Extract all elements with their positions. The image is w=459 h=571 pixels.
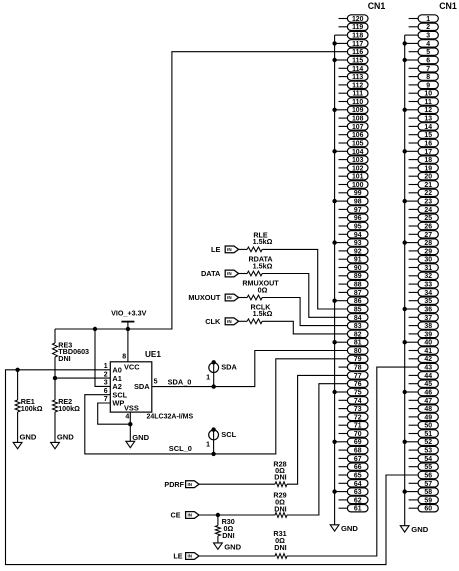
svg-text:100kΩ: 100kΩ [21, 404, 43, 413]
wire LE net to CN1 pin 85 [262, 249, 347, 309]
CN1 pin 59 [409, 496, 439, 504]
svg-text:56: 56 [424, 472, 432, 479]
svg-text:39: 39 [424, 331, 432, 338]
svg-text:86: 86 [354, 298, 362, 305]
CN1 pin 88 [339, 280, 369, 288]
CN1 pin 81 [332, 339, 368, 347]
CN1 pin 112 [339, 81, 369, 89]
svg-text:CLK: CLK [205, 317, 221, 326]
CN1 pin 96 [339, 214, 369, 222]
svg-text:21: 21 [424, 182, 432, 189]
pin number 2 (A1) [104, 371, 108, 378]
CN1 pin 118 [347, 31, 368, 39]
CN1 pin 78 [339, 363, 369, 371]
svg-text:51: 51 [424, 431, 432, 438]
svg-text:SDA: SDA [134, 382, 150, 391]
svg-text:93: 93 [354, 240, 362, 247]
CN1 pin 120 [339, 15, 369, 23]
CN1 pin 25 [409, 214, 439, 222]
port PDRF (input) [164, 480, 199, 489]
CN1 pin 66 [339, 463, 369, 471]
resistor R28 0Ω DNI [199, 459, 287, 486]
node A1 / RE2 / RE3 junction [53, 376, 57, 380]
svg-text:50: 50 [424, 423, 432, 430]
CN1 pin 109 [332, 106, 368, 114]
svg-text:25: 25 [424, 215, 432, 222]
svg-text:32: 32 [424, 273, 432, 280]
svg-text:DNI: DNI [274, 473, 286, 482]
svg-text:24LC32A-I/MS: 24LC32A-I/MS [147, 414, 194, 421]
wire A0 net: UE1 pin 1 to CN1 pin 56 [6, 370, 419, 565]
svg-text:VIO_+3.3V: VIO_+3.3V [111, 309, 147, 318]
CN1 pin 87 [339, 289, 369, 297]
svg-text:67: 67 [354, 456, 362, 463]
power symbol VIO_+3.3V [111, 309, 147, 329]
wire SDA net: UE1 pin 5 to CN1 pin 80 [152, 351, 348, 387]
svg-text:29: 29 [424, 248, 432, 255]
CN1 pin 43 [418, 363, 438, 371]
svg-text:120: 120 [352, 16, 364, 23]
svg-text:64: 64 [354, 481, 362, 488]
wire LE net to CN1 pin 43 [287, 367, 418, 556]
wire WP (UE1 pin 7) to VSS node [98, 403, 131, 424]
CN1 pin 24 [409, 206, 439, 214]
svg-text:IN: IN [188, 513, 193, 518]
svg-text:43: 43 [424, 365, 432, 372]
svg-text:102: 102 [352, 165, 364, 172]
svg-text:SCL_0: SCL_0 [169, 444, 192, 453]
CN1 pin 45 [409, 380, 439, 388]
resistor RE3 TBD0603 DNI pullup on A1 [53, 329, 90, 378]
resistor RLE 1.5kΩ [239, 231, 273, 252]
CN1 pin 19 [409, 164, 439, 172]
CN1 pin 32 [409, 272, 439, 280]
pin number 5 (SDA) [154, 379, 158, 386]
svg-text:MUXOUT: MUXOUT [188, 293, 221, 302]
pin number 4 (VSS) [125, 413, 129, 420]
svg-text:8: 8 [426, 74, 430, 81]
CN1 pin 14 [409, 123, 439, 131]
svg-text:LE: LE [211, 245, 221, 254]
CN1 pin 102 [339, 164, 369, 172]
CN1 pin 106 [339, 131, 369, 139]
CN1 pin 65 [339, 471, 369, 479]
wire MUXOUT net to CN1 pin 83 [262, 298, 347, 326]
CN1 pin 89 [339, 272, 369, 280]
svg-text:GND: GND [132, 433, 149, 442]
svg-text:WP: WP [112, 399, 124, 408]
CN1 pin 71 [339, 422, 369, 430]
svg-text:UE1: UE1 [145, 350, 161, 359]
svg-text:58: 58 [424, 489, 432, 496]
svg-text:105: 105 [352, 140, 364, 147]
svg-text:107: 107 [352, 124, 364, 131]
svg-text:17: 17 [424, 149, 432, 156]
CN1 pin 114 [339, 65, 369, 73]
svg-text:47: 47 [424, 398, 432, 405]
wire PDRF net to CN1 pin 77 [287, 375, 347, 484]
ground below RE2 [51, 432, 75, 448]
svg-text:117: 117 [352, 41, 363, 48]
CN1 pin 21 [409, 181, 439, 189]
svg-text:7: 7 [104, 396, 108, 403]
svg-text:DATA: DATA [201, 269, 221, 278]
svg-text:82: 82 [354, 331, 362, 338]
svg-text:114: 114 [352, 66, 363, 73]
svg-text:54: 54 [424, 456, 432, 463]
wire VIO branch to UE1 A2 (pin 3) [95, 329, 110, 386]
CN1 pin 28 [403, 239, 439, 247]
svg-text:SDA: SDA [221, 363, 237, 372]
CN1 pin 67 [339, 455, 369, 463]
CN1 pin 36 [403, 305, 439, 313]
CN1 pin 69 [332, 438, 368, 446]
ground symbol below CN1 right column [400, 525, 428, 534]
net label SCL_0 [169, 444, 192, 453]
port DATA (input) [201, 269, 239, 278]
node CE / R30 junction [216, 513, 220, 517]
CN1 pin 4 [403, 40, 439, 48]
CN1 pin 11 [409, 98, 439, 106]
svg-text:16: 16 [424, 140, 432, 147]
CN1 pin 48 [409, 405, 439, 413]
CN1 pin 6 [403, 56, 439, 64]
svg-text:111: 111 [352, 91, 363, 98]
CN1 pin 115 [332, 56, 368, 64]
CN1 pin 44 [409, 372, 439, 380]
svg-text:103: 103 [352, 157, 364, 164]
svg-text:48: 48 [424, 406, 432, 413]
svg-text:GND: GND [341, 524, 358, 533]
svg-text:68: 68 [354, 448, 362, 455]
CN1 pin 34 [409, 289, 439, 297]
svg-text:12: 12 [424, 107, 432, 114]
pin number 3 (A2) [104, 380, 108, 387]
CN1 pin 56 [418, 471, 438, 479]
svg-text:1.5kΩ: 1.5kΩ [253, 309, 273, 318]
CN1 pin 40 [403, 339, 439, 347]
CN1 pin 15 [409, 131, 439, 139]
svg-text:61: 61 [354, 506, 362, 513]
CN1 pin 49 [409, 413, 439, 421]
svg-text:2: 2 [426, 24, 430, 31]
svg-text:37: 37 [424, 315, 432, 322]
svg-text:76: 76 [354, 381, 362, 388]
svg-text:DNI: DNI [58, 354, 70, 363]
node A0 / RE1 junction [15, 368, 19, 372]
svg-text:31: 31 [424, 265, 432, 272]
svg-text:CE: CE [171, 511, 181, 520]
svg-text:66: 66 [354, 464, 362, 471]
svg-text:98: 98 [354, 199, 362, 206]
svg-text:42: 42 [424, 356, 432, 363]
svg-text:59: 59 [424, 497, 432, 504]
CN1 pin 103 [339, 156, 369, 164]
svg-text:108: 108 [352, 116, 364, 123]
svg-text:1: 1 [104, 363, 108, 370]
svg-text:83: 83 [354, 323, 362, 330]
CN1 pin 91 [339, 256, 369, 264]
CN1 pin 18 [409, 156, 439, 164]
pin number 8 (VCC) [122, 354, 126, 361]
svg-text:IN: IN [227, 319, 232, 324]
svg-text:75: 75 [354, 389, 362, 396]
CN1 pin 98 [332, 197, 368, 205]
CN1 pin 79 [347, 355, 368, 363]
wire VSS stub (UE1 pin 4) [129, 412, 131, 441]
svg-text:81: 81 [354, 340, 362, 347]
svg-text:CN1: CN1 [439, 1, 457, 11]
test point SDA (node SDA) [206, 360, 237, 389]
svg-text:1.5kΩ: 1.5kΩ [253, 237, 273, 246]
CN1 pin 7 [409, 65, 439, 73]
CN1 pin 95 [339, 222, 369, 230]
svg-text:3: 3 [426, 33, 430, 40]
svg-text:99: 99 [354, 190, 362, 197]
CN1 pin 2 [409, 23, 439, 31]
CN1 pin 84 [347, 314, 368, 322]
svg-text:94: 94 [354, 232, 362, 239]
resistor RDATA 1.5kΩ [239, 255, 273, 276]
svg-text:44: 44 [424, 373, 432, 380]
CN1 pin 51 [409, 430, 439, 438]
pin number 7 (WP) [104, 396, 108, 403]
svg-text:IN: IN [188, 482, 193, 487]
svg-text:IN: IN [227, 295, 232, 300]
CN1 pin 62 [339, 496, 369, 504]
svg-text:96: 96 [354, 215, 362, 222]
CN1 pin 80 [347, 347, 368, 355]
CN1 pin 23 [403, 197, 439, 205]
CN1 pin 58 [403, 488, 439, 496]
CN1 pin 73 [339, 405, 369, 413]
svg-text:DNI: DNI [274, 543, 286, 552]
svg-text:0Ω: 0Ω [258, 285, 268, 294]
svg-text:GND: GND [224, 542, 241, 551]
svg-text:33: 33 [424, 282, 432, 289]
resistor R29 0Ω DNI [199, 490, 287, 517]
pin number 1 (A0) [104, 363, 108, 370]
CN1 pin 68 [339, 446, 369, 454]
svg-text:26: 26 [424, 223, 432, 230]
svg-text:6: 6 [426, 58, 430, 65]
svg-text:13: 13 [424, 116, 432, 123]
svg-text:106: 106 [352, 132, 364, 139]
CN1 pin 12 [403, 106, 439, 114]
svg-text:22: 22 [424, 190, 432, 197]
CN1 pin 46 [403, 388, 439, 396]
svg-text:53: 53 [424, 448, 432, 455]
CN1 pin 93 [332, 239, 368, 247]
CN1 pin 100 [339, 181, 369, 189]
svg-text:63: 63 [354, 489, 362, 496]
svg-text:2: 2 [104, 371, 108, 378]
svg-text:119: 119 [352, 24, 363, 31]
CN1 pin 101 [339, 173, 369, 181]
svg-text:89: 89 [354, 273, 362, 280]
CN1 pin 1 [409, 15, 439, 23]
node VIO / A2 branch junction [93, 327, 97, 331]
wire VCC stub to UE1 pin 8 [127, 329, 129, 362]
CN1 pin 42 [409, 355, 439, 363]
svg-text:113: 113 [352, 74, 363, 81]
svg-text:112: 112 [352, 82, 363, 89]
CN1 pin 107 [339, 123, 369, 131]
CN1 pin 113 [339, 73, 369, 81]
CN1 pin 61 [339, 505, 369, 513]
CN1 pin 116 [347, 48, 368, 56]
svg-text:70: 70 [354, 431, 362, 438]
CN1 pin 22 [409, 189, 439, 197]
svg-text:5: 5 [154, 379, 158, 386]
CN1 pin 20 [409, 173, 439, 181]
CN1 pin 60 [409, 505, 439, 513]
connector CN1 (left half) ground bus [335, 35, 348, 525]
CN1 pin 99 [339, 189, 369, 197]
CN1 pin 70 [339, 430, 369, 438]
CN1 pin 86 [332, 297, 368, 305]
port MUXOUT (input) [188, 293, 238, 302]
svg-text:72: 72 [354, 414, 362, 421]
CN1 pin 50 [409, 422, 439, 430]
net label SDA_0 [168, 377, 192, 386]
svg-text:109: 109 [352, 107, 364, 114]
svg-text:SDA_0: SDA_0 [168, 377, 192, 386]
svg-text:4: 4 [426, 41, 430, 48]
CN1 pin 83 [347, 322, 368, 330]
node VIO / VCC junction [126, 327, 130, 331]
svg-text:60: 60 [424, 506, 432, 513]
ground below RE1 [13, 432, 37, 448]
svg-text:5: 5 [426, 49, 430, 56]
svg-text:55: 55 [424, 464, 432, 471]
CN1 pin 8 [409, 73, 439, 81]
ground symbol below CN1 left column [330, 524, 358, 533]
svg-text:115: 115 [352, 58, 363, 65]
op-amp/IC UE1 24LC32A-I/MS EEPROM body [110, 350, 193, 421]
svg-text:CN1: CN1 [368, 1, 386, 11]
svg-text:14: 14 [424, 124, 432, 131]
svg-text:52: 52 [424, 439, 432, 446]
node VSS / WP junction [128, 422, 132, 426]
svg-text:90: 90 [354, 265, 362, 272]
svg-text:65: 65 [354, 472, 362, 479]
svg-text:79: 79 [354, 356, 362, 363]
svg-text:DNI: DNI [222, 531, 234, 540]
CN1 pin 17 [403, 148, 439, 156]
svg-text:9: 9 [426, 82, 430, 89]
CN1 pin 119 [339, 23, 369, 31]
svg-text:IN: IN [227, 247, 232, 252]
CN1 pin 39 [409, 330, 439, 338]
port CE (input) [171, 511, 200, 520]
CN1 pin 47 [409, 397, 439, 405]
CN1 pin 63 [332, 488, 368, 496]
CN1 pin 37 [409, 314, 439, 322]
svg-text:23: 23 [424, 199, 432, 206]
svg-text:VSS: VSS [124, 404, 139, 413]
svg-text:74: 74 [354, 398, 362, 405]
pin number 6 (SCL) [104, 388, 108, 395]
CN1 pin 31 [409, 264, 439, 272]
CN1 pin 97 [339, 206, 369, 214]
svg-text:101: 101 [352, 174, 364, 181]
CN1 pin 75 [332, 388, 368, 396]
resistor RE2 100k pulldown on A1 [53, 378, 81, 442]
svg-text:SCL: SCL [221, 430, 236, 439]
CN1 pin 76 [347, 380, 368, 388]
ground below R30 [214, 542, 242, 551]
CN1 pin 9 [409, 81, 439, 89]
svg-text:GND: GND [411, 525, 428, 534]
svg-text:PDRF: PDRF [164, 480, 184, 489]
svg-text:19: 19 [424, 165, 432, 172]
CN1 pin 57 [409, 480, 439, 488]
CN1 pin 54 [409, 455, 439, 463]
svg-text:36: 36 [424, 306, 432, 313]
svg-text:71: 71 [354, 423, 362, 430]
CN1 pin 41 [409, 347, 439, 355]
CN1 pin 16 [409, 139, 439, 147]
CN1 pin 92 [339, 247, 369, 255]
svg-text:46: 46 [424, 389, 432, 396]
CN1 pin 10 [409, 90, 439, 98]
svg-text:100: 100 [352, 182, 364, 189]
svg-text:1: 1 [206, 440, 210, 449]
svg-text:IN: IN [227, 271, 232, 276]
test point SCL (node SCL) [206, 427, 237, 456]
wire DATA net to CN1 pin 84 [262, 274, 347, 318]
svg-text:77: 77 [354, 373, 362, 380]
svg-text:40: 40 [424, 340, 432, 347]
svg-text:24: 24 [424, 207, 432, 214]
CN1 pin 38 [409, 322, 439, 330]
wire CLK net to CN1 pin 82 [262, 321, 347, 334]
svg-text:11: 11 [425, 99, 432, 106]
connector CN1 (right half) ground bus [405, 35, 418, 526]
svg-text:DNI: DNI [274, 504, 286, 513]
connector CN1 (right half) title [439, 1, 457, 11]
CN1 pin 55 [409, 463, 439, 471]
CN1 pin 72 [339, 413, 369, 421]
svg-text:73: 73 [354, 406, 362, 413]
svg-text:15: 15 [424, 132, 432, 139]
CN1 pin 111 [339, 90, 369, 98]
svg-text:62: 62 [354, 497, 362, 504]
svg-text:92: 92 [354, 248, 362, 255]
svg-text:1: 1 [426, 16, 430, 23]
svg-text:30: 30 [424, 257, 432, 264]
CN1 pin 94 [339, 231, 369, 239]
CN1 pin 30 [409, 256, 439, 264]
svg-text:91: 91 [354, 257, 362, 264]
svg-text:7: 7 [426, 66, 430, 73]
svg-text:69: 69 [354, 439, 362, 446]
svg-text:38: 38 [424, 323, 432, 330]
svg-text:3: 3 [104, 380, 108, 387]
CN1 pin 64 [339, 480, 369, 488]
svg-text:45: 45 [424, 381, 432, 388]
svg-text:84: 84 [354, 315, 362, 322]
port LE (input) [211, 245, 239, 254]
svg-text:100kΩ: 100kΩ [58, 404, 80, 413]
svg-text:116: 116 [352, 49, 363, 56]
wire A1 net: UE1 pin 2 to RE2/RE3 [55, 377, 110, 379]
svg-text:97: 97 [354, 207, 362, 214]
svg-text:IN: IN [188, 554, 193, 559]
resistor R30 0Ω DNI to ground [215, 515, 234, 543]
svg-text:28: 28 [424, 240, 432, 247]
